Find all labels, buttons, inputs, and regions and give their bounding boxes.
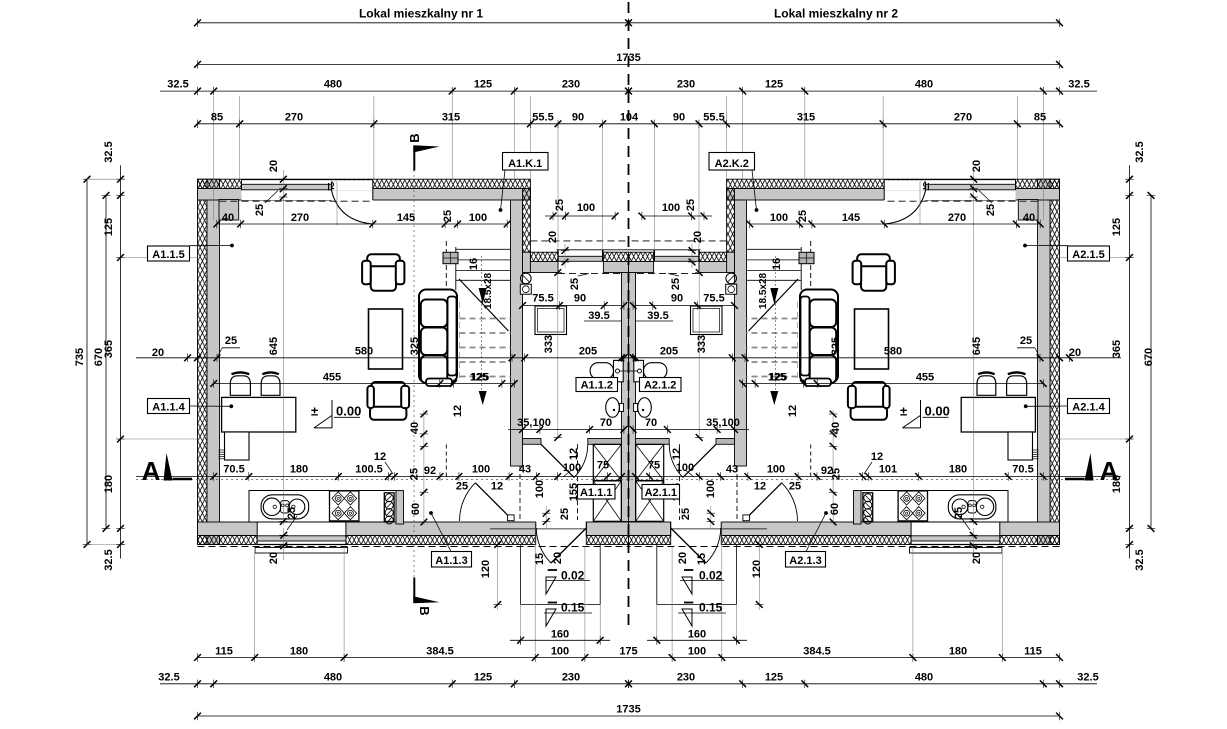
door D3 opening dashed lintel — [577, 444, 579, 520]
svg-text:25: 25 — [789, 481, 801, 493]
level marker -0.15 porch (right unit) — [684, 602, 693, 604]
svg-text:12: 12 — [491, 481, 503, 493]
furniture: armchair 1 (living room, back at top) — [371, 260, 396, 291]
svg-text:25: 25 — [554, 199, 566, 211]
staircase: dashed treads of upper flight (above section cut) — [460, 318, 511, 320]
dim row: 85/270/315/55.5/90/104 top — [198, 123, 629, 125]
dim col: segmented 32.5/125/365/180/32.5 left — [120, 165, 122, 558]
svg-text:12: 12 — [568, 448, 580, 460]
wall: bottom exterior wall of left unit — [198, 522, 536, 536]
svg-text:75.5: 75.5 — [532, 293, 553, 305]
svg-text:100: 100 — [472, 464, 490, 476]
svg-text:101: 101 — [879, 464, 897, 476]
svg-text:480: 480 — [915, 672, 933, 684]
svg-text:60: 60 — [829, 503, 841, 515]
svg-text:20: 20 — [971, 552, 983, 564]
svg-text:145: 145 — [842, 212, 860, 224]
svg-text:B: B — [417, 606, 432, 615]
ventilation shaft box 1 in hall (cross box) — [593, 444, 621, 480]
svg-text:365: 365 — [103, 340, 115, 358]
svg-text:0.00: 0.00 — [925, 404, 950, 419]
svg-text:180: 180 — [949, 464, 967, 476]
kitchen worktop along bottom wall — [249, 491, 396, 523]
door D1 swing arc — [332, 191, 373, 225]
svg-text:25: 25 — [569, 278, 581, 290]
svg-text:645: 645 — [971, 337, 983, 355]
dim row: bottom 115/180/384.5/100/175 y=657.5 — [198, 657, 629, 659]
vertical mini chain 40/25/92/60 at sofa end / kitchen — [423, 410, 425, 525]
section flag A right — [1085, 453, 1094, 481]
svg-text:100: 100 — [662, 202, 680, 214]
svg-text:100: 100 — [767, 464, 785, 476]
svg-text:15: 15 — [534, 553, 546, 565]
svg-text:115: 115 — [215, 646, 233, 658]
svg-text:70: 70 — [600, 417, 612, 429]
svg-text:480: 480 — [324, 672, 342, 684]
svg-text:43: 43 — [519, 464, 531, 476]
svg-text:735: 735 — [74, 348, 86, 366]
svg-text:32.5: 32.5 — [103, 549, 115, 570]
dim row: stair 125 y=380 (inside stairs) — [450, 380, 457, 387]
svg-text:±: ± — [900, 404, 907, 419]
svg-text:25: 25 — [680, 508, 692, 520]
svg-text:18.5x28: 18.5x28 — [483, 272, 494, 309]
porch slab outline at hall entrance — [520, 545, 522, 605]
svg-text:A1.1.1: A1.1.1 — [580, 487, 612, 499]
furniture: armchair 2 (living room, back at bottom) — [371, 382, 405, 407]
svg-text:70.5: 70.5 — [1012, 464, 1033, 476]
svg-text:25: 25 — [831, 468, 843, 480]
dim col: 670 left (mirrored to right) — [105, 195, 107, 528]
svg-text:60: 60 — [410, 503, 422, 515]
svg-text:12: 12 — [787, 405, 799, 417]
svg-text:20: 20 — [692, 231, 704, 243]
svg-text:333: 333 — [543, 335, 555, 353]
svg-text:1735: 1735 — [616, 704, 640, 716]
door D4: hall exterior door leaf and swing — [551, 528, 586, 563]
dim row: porch 160 y=640 — [510, 639, 610, 641]
window W3 exterior sill — [255, 548, 348, 554]
section flag A left — [164, 453, 173, 481]
svg-text:180: 180 — [103, 475, 115, 493]
bathroom boiler symbol — [521, 273, 532, 284]
dim col: segmented 32.5/125/365/180/32.5 right — [1129, 165, 1131, 558]
svg-text:A1.1.5: A1.1.5 — [152, 249, 184, 261]
svg-text:A2.1.3: A2.1.3 — [789, 555, 821, 567]
svg-text:20: 20 — [552, 552, 564, 564]
room label boxes right unit — [1068, 246, 1110, 261]
dim row: bathroom 75.5/90/39.5 y=305.5 — [523, 305, 624, 307]
svg-text:55.5: 55.5 — [532, 111, 553, 123]
svg-text:480: 480 — [915, 79, 933, 91]
svg-text:120: 120 — [751, 560, 763, 578]
door D5 leaf and swing arc — [475, 483, 513, 521]
dim row: 32.5/480/125/230 top — [160, 90, 629, 92]
section flag B top — [413, 146, 415, 171]
svg-text:25: 25 — [670, 278, 682, 290]
svg-text:A: A — [142, 456, 161, 486]
wall: insulated outer face of wing east wall facing recess — [523, 189, 531, 253]
svg-text:0.15: 0.15 — [561, 601, 585, 615]
dim row: kitchen/hall y=476.5 — [136, 476, 629, 478]
svg-text:85: 85 — [211, 111, 223, 123]
mini chain 20 top-left insulation — [282, 170, 284, 195]
wall: left exterior wall (hatch + masonry) — [198, 179, 208, 544]
furniture: dining table — [222, 397, 296, 432]
wall: bay north wall centre pier (104) — [603, 252, 628, 261]
svg-text:20: 20 — [152, 347, 164, 359]
svg-text:205: 205 — [660, 346, 678, 358]
svg-text:40: 40 — [222, 212, 234, 224]
svg-text:Lokal mieszkalny nr 2: Lokal mieszkalny nr 2 — [774, 7, 898, 21]
ventilation shaft box 2 in hall (cross box) — [593, 481, 621, 521]
wall: corner pilaster top-left — [219, 200, 239, 221]
svg-text:75: 75 — [648, 460, 660, 472]
svg-text:85: 85 — [1034, 111, 1046, 123]
svg-text:A2.K.2: A2.K.2 — [715, 158, 749, 170]
extension lines bottom — [254, 547, 256, 653]
furniture: coffee table — [369, 309, 403, 369]
svg-text:40: 40 — [1023, 212, 1035, 224]
svg-text:75.5: 75.5 — [703, 293, 724, 305]
kitchen double sink (stadium outline, two bowls, faucet) — [261, 495, 309, 519]
svg-text:35,100: 35,100 — [517, 417, 551, 429]
svg-text:100: 100 — [676, 462, 694, 474]
centerline between units (dash-dot) — [628, 2, 630, 632]
svg-text:125: 125 — [765, 79, 783, 91]
svg-text:315: 315 — [442, 111, 460, 123]
extension lines from dimension ticks — [239, 96, 241, 179]
svg-text:100: 100 — [563, 462, 581, 474]
door D5: kitchen-hall door opening, lintel dashed — [519, 466, 521, 522]
svg-text:90: 90 — [574, 293, 586, 305]
svg-text:16: 16 — [771, 258, 783, 270]
kitchen tall cabinet/heater with slashed rings — [384, 493, 394, 522]
svg-text:1735: 1735 — [616, 52, 640, 64]
svg-text:39.5: 39.5 — [588, 310, 609, 322]
svg-text:230: 230 — [562, 672, 580, 684]
kitchen stove with 4 diamond burners — [330, 491, 359, 521]
svg-text:645: 645 — [268, 337, 280, 355]
svg-text:43: 43 — [726, 464, 738, 476]
leader under 100 label in hall — [563, 471, 571, 478]
svg-text:20: 20 — [547, 231, 559, 243]
svg-text:A1.1.3: A1.1.3 — [435, 555, 467, 567]
svg-text:384.5: 384.5 — [803, 646, 831, 658]
dashed line: bay wall inner reference — [558, 272, 622, 274]
svg-text:180: 180 — [290, 646, 308, 658]
svg-text:25: 25 — [409, 468, 421, 480]
svg-text:15: 15 — [696, 553, 708, 565]
furniture: kitchen side counter with drawer lines — [225, 432, 250, 460]
svg-text:0.15: 0.15 — [699, 601, 723, 615]
svg-text:125: 125 — [474, 79, 492, 91]
wall: top exterior wall of left unit — [198, 179, 531, 188]
svg-text:175: 175 — [619, 646, 637, 658]
svg-text:325: 325 — [409, 337, 421, 355]
svg-text:A2.1.1: A2.1.1 — [645, 487, 677, 499]
svg-text:270: 270 — [948, 212, 966, 224]
svg-text:100: 100 — [770, 212, 788, 224]
threshold line in bottom wall at hall door — [490, 528, 586, 530]
dim row: bathroom 35/100/70 y=429.5 — [508, 429, 624, 431]
svg-text:25: 25 — [985, 204, 997, 216]
vertical mini chain at kitchen window edge — [283, 528, 285, 560]
staircase: walking line with arrows — [481, 256, 483, 392]
svg-text:32.5: 32.5 — [1134, 549, 1146, 570]
svg-text:580: 580 — [884, 346, 902, 358]
svg-text:125: 125 — [769, 372, 787, 384]
svg-text:A1.1.4: A1.1.4 — [152, 401, 185, 413]
svg-text:40: 40 — [409, 422, 421, 434]
svg-text:125: 125 — [1111, 218, 1123, 236]
vertical chain x=557.8 (bathroom 333) — [557, 273, 559, 438]
svg-text:384.5: 384.5 — [426, 646, 454, 658]
svg-text:A2.1.5: A2.1.5 — [1072, 249, 1104, 261]
vertical mini chain 120 porch — [494, 541, 501, 548]
room label boxes left unit — [148, 246, 190, 261]
svg-text:580: 580 — [355, 346, 373, 358]
level marker -0.02 porch (left unit) — [548, 569, 557, 571]
svg-text:25: 25 — [797, 210, 809, 222]
door D5 hinge plate — [508, 515, 515, 521]
svg-text:25: 25 — [953, 507, 965, 519]
svg-text:70: 70 — [645, 417, 657, 429]
svg-text:±: ± — [311, 404, 318, 419]
svg-text:0.00: 0.00 — [336, 404, 361, 419]
kitchen wall stub east of worktop — [396, 491, 404, 525]
dashed outline near chimney stub — [445, 445, 447, 479]
svg-text:25: 25 — [559, 508, 571, 520]
wall: wing east wall (stair/bath wall) — [511, 200, 523, 466]
svg-text:0.02: 0.02 — [561, 569, 585, 583]
svg-text:125: 125 — [103, 218, 115, 236]
svg-text:0.02: 0.02 — [699, 569, 723, 583]
svg-text:39.5: 39.5 — [647, 310, 668, 322]
svg-text:365: 365 — [1111, 340, 1123, 358]
svg-text:18.5x28: 18.5x28 — [758, 272, 769, 309]
svg-text:100: 100 — [534, 480, 546, 498]
svg-text:25: 25 — [1020, 335, 1032, 347]
svg-text:32.5: 32.5 — [167, 79, 188, 91]
window W1 end jamb double line — [328, 183, 330, 191]
svg-text:100: 100 — [577, 202, 595, 214]
leader from 25 label to window — [265, 191, 278, 204]
svg-text:315: 315 — [797, 111, 815, 123]
wall: bottom wall centre segment (hall side) — [586, 522, 628, 536]
svg-text:25: 25 — [442, 210, 454, 222]
svg-text:104: 104 — [620, 111, 639, 123]
vertical chain x=283.3 ticks (645) — [280, 194, 287, 201]
svg-text:205: 205 — [579, 346, 597, 358]
svg-text:100: 100 — [688, 646, 706, 658]
furniture: dining chair 1 (arch shape with bold back arc) — [230, 376, 250, 396]
svg-text:55.5: 55.5 — [703, 111, 724, 123]
svg-text:A2.1.4: A2.1.4 — [1072, 401, 1105, 413]
svg-text:A1.K.1: A1.K.1 — [508, 158, 542, 170]
extension lines left side — [125, 257, 198, 259]
dim row: interior 40/270/145/25/100 y=224 — [217, 223, 507, 225]
svg-text:333: 333 — [696, 335, 708, 353]
svg-text:12: 12 — [452, 405, 464, 417]
svg-text:16: 16 — [468, 258, 480, 270]
svg-text:125: 125 — [474, 672, 492, 684]
svg-text:B: B — [407, 133, 422, 142]
wall: recessed bay north wall segment — [557, 249, 629, 251]
level marker ±0.00 right unit — [920, 400, 922, 428]
svg-text:90: 90 — [673, 111, 685, 123]
svg-text:160: 160 — [688, 628, 706, 640]
svg-text:20: 20 — [268, 552, 280, 564]
svg-text:A: A — [1100, 456, 1119, 486]
svg-text:40: 40 — [830, 422, 842, 434]
svg-text:180: 180 — [290, 464, 308, 476]
svg-text:115: 115 — [1024, 646, 1042, 658]
svg-text:70.5: 70.5 — [223, 464, 244, 476]
svg-text:100: 100 — [469, 212, 487, 224]
dim row: 455/125 y=383.5 — [214, 383, 515, 385]
svg-text:480: 480 — [324, 79, 342, 91]
staircase: break line (diagonal cut) — [459, 279, 509, 331]
svg-text:A2.1.2: A2.1.2 — [644, 379, 676, 391]
bathroom washing machine / shower — [535, 306, 567, 335]
svg-text:35,100: 35,100 — [706, 417, 740, 429]
level marker -0.02 porch (right unit) — [684, 569, 693, 571]
window W2 in bay north wall — [558, 256, 603, 261]
svg-text:230: 230 — [677, 672, 695, 684]
svg-text:270: 270 — [954, 111, 972, 123]
svg-text:25: 25 — [254, 204, 266, 216]
window W1 in top wall (living room) — [242, 179, 332, 200]
svg-text:100: 100 — [705, 480, 717, 498]
svg-text:90: 90 — [671, 293, 683, 305]
svg-text:12: 12 — [871, 451, 883, 463]
svg-text:32.5: 32.5 — [1068, 79, 1089, 91]
svg-text:100.5: 100.5 — [355, 464, 383, 476]
dashed line: roof overhang over entrance — [220, 200, 373, 202]
bathroom washbasin (vertical oval) — [606, 398, 620, 418]
svg-text:20: 20 — [677, 552, 689, 564]
dim row: bottom 32.5/480/125/230 y=683.8 — [160, 683, 629, 685]
staircase: top landing masonry pier — [443, 252, 458, 263]
furniture: sofa along staircase (3 cushions, back at right) — [419, 290, 457, 383]
dim row: Lokal mieszkalny line — [198, 22, 629, 24]
svg-text:230: 230 — [562, 79, 580, 91]
svg-text:270: 270 — [291, 212, 309, 224]
svg-text:12: 12 — [374, 451, 386, 463]
door D3: bathroom door leaf and swing — [541, 444, 574, 477]
level marker -0.15 porch (left unit) — [548, 602, 557, 604]
section line B-B vertical — [413, 150, 415, 601]
dim col: 735 left only — [86, 179, 88, 544]
dashed line: below bottom wall — [198, 546, 629, 548]
svg-text:A1.1.2: A1.1.2 — [581, 379, 613, 391]
level marker ±0.00 kitchen — [331, 400, 333, 428]
svg-text:25: 25 — [456, 481, 468, 493]
svg-text:20: 20 — [1069, 347, 1081, 359]
section flag B bottom — [413, 578, 415, 603]
door D1: entrance door opening in top wall — [332, 191, 373, 201]
svg-text:12: 12 — [671, 448, 683, 460]
svg-text:145: 145 — [397, 212, 415, 224]
svg-text:92: 92 — [424, 465, 436, 477]
svg-text:125: 125 — [765, 672, 783, 684]
mini chain 15/20 at hall door — [545, 506, 547, 528]
dim row: bay upper 25/100 y=216 — [545, 215, 615, 217]
wall: bathroom south partition (12cm) — [523, 439, 542, 445]
svg-text:75: 75 — [597, 460, 609, 472]
window W3: kitchen window/terrace opening in bottom wall — [257, 522, 346, 545]
wall: party wall between units — [622, 273, 629, 522]
bathroom toilet (bowl + cistern) — [590, 363, 613, 379]
svg-text:670: 670 — [1143, 348, 1155, 366]
vertical mini chain 20 at bay wall — [564, 244, 566, 268]
svg-text:25: 25 — [685, 199, 697, 211]
svg-text:32.5: 32.5 — [1134, 141, 1146, 162]
staircase: solid treads of lower flight — [456, 248, 511, 250]
svg-text:125: 125 — [470, 372, 488, 384]
svg-text:455: 455 — [323, 372, 341, 384]
svg-text:90: 90 — [572, 111, 584, 123]
staircase: dashed outline of upper flight — [445, 241, 447, 302]
section line A-A horizontal — [136, 479, 1121, 481]
svg-text:325: 325 — [830, 337, 842, 355]
furniture: dining chair 2 — [261, 376, 280, 396]
dashed line: roof overhang over recessed bay — [530, 240, 628, 242]
svg-text:32.5: 32.5 — [1077, 672, 1098, 684]
svg-text:20: 20 — [971, 160, 983, 172]
svg-text:100: 100 — [551, 646, 569, 658]
svg-text:230: 230 — [677, 79, 695, 91]
svg-text:455: 455 — [916, 372, 934, 384]
svg-text:12: 12 — [754, 481, 766, 493]
svg-text:20: 20 — [268, 160, 280, 172]
svg-text:160: 160 — [551, 628, 569, 640]
dim row: bottom 1735 y=716 — [198, 715, 629, 717]
svg-text:32.5: 32.5 — [103, 141, 115, 162]
leader from bay 25 label to dashed line — [578, 274, 589, 277]
svg-text:Lokal mieszkalny nr 1: Lokal mieszkalny nr 1 — [359, 7, 483, 21]
svg-text:180: 180 — [949, 646, 967, 658]
dim row: mid horizontal line y=357.8 — [136, 357, 629, 359]
svg-text:25: 25 — [225, 335, 237, 347]
dim row: 1735 top — [198, 63, 629, 65]
svg-text:32.5: 32.5 — [158, 672, 179, 684]
svg-text:120: 120 — [480, 560, 492, 578]
svg-text:270: 270 — [285, 111, 303, 123]
